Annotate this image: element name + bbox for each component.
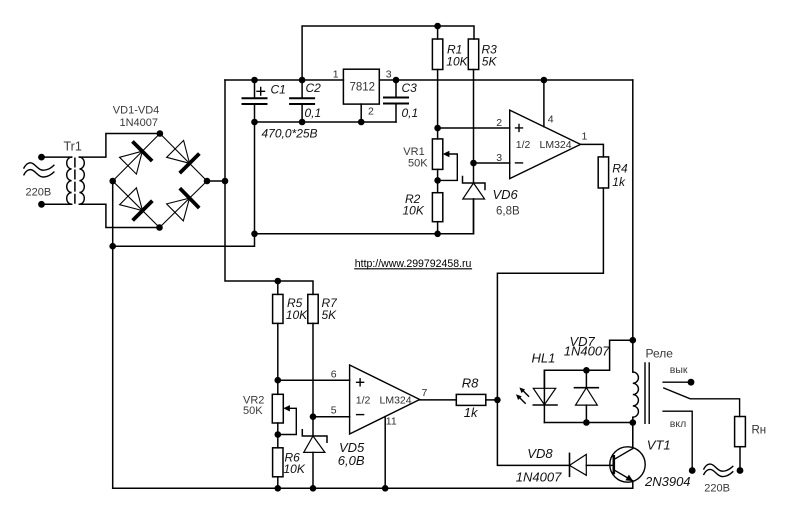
svg-text:5K: 5K (482, 54, 498, 68)
svg-text:1N4007: 1N4007 (120, 117, 159, 129)
node relay coil bottom / collector (630, 419, 637, 426)
http link underline (355, 268, 472, 270)
wire HL1/VD7 bottom to relay bottom node (544, 422, 632, 424)
resistor Rn body (735, 417, 746, 447)
wire VD7 top stub (585, 370, 587, 387)
capacitor C3 plates (384, 98, 408, 104)
diode VD2 cathode bar (181, 155, 198, 172)
capacitor C1 plates (243, 98, 267, 104)
svg-text:http://www.299792458.ru: http://www.299792458.ru (355, 258, 472, 270)
wire pin2 to op-amp (438, 127, 510, 129)
transformer Tr1 primary winding (67, 157, 72, 204)
wire R3 bottom to VD6 (473, 70, 475, 184)
diode bridge diamond frame (113, 134, 207, 228)
wire VR1 node to R2 (437, 180, 439, 192)
regulator U2 7812 box (343, 69, 379, 104)
zener VD5 cathode bar with ticks (302, 430, 327, 443)
diode VD8 cathode bar (569, 453, 571, 476)
svg-text:11: 11 (386, 416, 397, 428)
svg-text:Реле: Реле (646, 347, 674, 361)
svg-text:1N4007: 1N4007 (564, 344, 610, 359)
node VD7 bottom (583, 419, 590, 426)
svg-text:6: 6 (331, 368, 337, 380)
svg-text:470,0*25В: 470,0*25В (262, 127, 318, 141)
relay contact fixed (on) down to AC (663, 411, 692, 470)
diode VD2 (upper-right) triangle (167, 140, 190, 163)
terminal primary top (38, 154, 45, 161)
svg-text:1: 1 (582, 131, 588, 143)
VR2 wiper arm wire (278, 408, 297, 434)
svg-text:6,0В: 6,0В (338, 453, 365, 468)
svg-text:4: 4 (548, 114, 554, 126)
node bridge left (109, 178, 116, 185)
node 7812 pin2 ground (358, 119, 365, 126)
node pin11 ground (382, 485, 389, 492)
transformer Tr1 core (74, 158, 76, 203)
wire bridge - down to jog (112, 181, 114, 246)
wire capacitor ground rail (255, 121, 397, 123)
node pin3 / R3 / VD6 (470, 160, 477, 167)
wire unregulated + vertical down to R5/R7 feed (225, 80, 313, 294)
svg-text:10K: 10K (286, 308, 308, 322)
VR1 wiper arm wire (438, 154, 458, 180)
wire pin5 to op-amp (313, 416, 350, 418)
relay core bars (645, 363, 649, 423)
wire R5 top stub (277, 281, 279, 294)
svg-text:7: 7 (422, 387, 428, 399)
node ground jog left (109, 243, 116, 250)
zener VD5 triangle (304, 436, 325, 452)
svg-text:HL1: HL1 (532, 351, 556, 366)
LED HL1 cathode bar (533, 404, 557, 406)
transformer Tr1 secondary winding (79, 157, 84, 204)
op-amp U1.1 plus (516, 124, 523, 131)
node bridge bottom (156, 224, 163, 231)
VR2 wiper arrow head (283, 405, 290, 411)
LED HL1 vertical through (543, 370, 545, 422)
terminal AC left (689, 467, 696, 474)
zener VD6 triangle (463, 183, 485, 199)
svg-text:6,8В: 6,8В (496, 206, 520, 218)
op-amp U1.1 triangle (510, 110, 581, 179)
node top wire / R1 (434, 23, 441, 30)
node R8 / R4 / VD8 (494, 397, 501, 404)
svg-text:1/2: 1/2 (516, 139, 531, 151)
diode VD3 cathode bar (134, 202, 151, 219)
transistor VT1 circle (610, 447, 645, 482)
svg-text:С2: С2 (306, 81, 322, 95)
node C2 bottom (299, 119, 306, 126)
node pin2 / R1 / VR1 (434, 125, 441, 132)
VT1 emitter arrow head (625, 475, 633, 482)
diode VD3 (lower-left) triangle (120, 188, 143, 211)
op-amp U1.2 minus (357, 414, 364, 416)
svg-text:LM324: LM324 (380, 394, 412, 406)
wire +12V rail 7812 pin3 to relay corner (379, 79, 633, 81)
node VR2 wiper (275, 431, 282, 438)
svg-text:С1: С1 (271, 83, 286, 97)
svg-text:С3: С3 (402, 81, 418, 95)
wire R1 top stub (437, 26, 439, 39)
svg-text:вык: вык (670, 364, 688, 376)
node R5 top feed (275, 278, 282, 285)
svg-text:3: 3 (496, 152, 502, 164)
svg-text:10K: 10K (403, 204, 425, 218)
wire pin3 to op-amp (474, 162, 510, 164)
capacitor C3 stubs (395, 80, 397, 122)
resistor R5 body (273, 294, 283, 323)
AC source 220V left squiggles (24, 163, 54, 170)
svg-text:Tr1: Tr1 (64, 140, 82, 154)
svg-text:2: 2 (368, 106, 374, 118)
node relay coil top (630, 337, 637, 344)
node pin5 / R7 / VD5 (310, 413, 317, 420)
svg-text:10K: 10K (284, 462, 306, 476)
node ground rail left (251, 231, 258, 238)
wire primary bottom (42, 203, 72, 205)
wire upper ground rail to VD6 anode (255, 199, 474, 234)
svg-text:VD1-VD4: VD1-VD4 (113, 105, 159, 117)
node pin6 / R5 / VR2 (275, 377, 282, 384)
wire bridge + output to vertical (207, 180, 225, 182)
svg-text:10K: 10K (446, 54, 468, 68)
transistor VT1 collector (614, 423, 633, 460)
node op-amp pin4 on +12V rail (541, 77, 548, 84)
wire VR2 bottom to R6 (277, 423, 279, 448)
svg-text:1k: 1k (464, 405, 479, 420)
capacitor C1 stubs (254, 80, 256, 122)
node VR1 wiper (434, 177, 441, 184)
svg-text:VT1: VT1 (647, 438, 671, 453)
wire VD7 anode stub (585, 405, 587, 422)
wire R7 bottom to pin5 node (312, 323, 314, 416)
resistor R4 body (598, 157, 608, 188)
svg-text:5K: 5K (322, 308, 338, 322)
capacitor C2 stubs (301, 80, 303, 122)
wire R2 bottom to ground rail (437, 222, 439, 234)
svg-text:VR1: VR1 (403, 146, 424, 158)
resistor R1 body (432, 39, 442, 70)
node C1 bottom (251, 119, 258, 126)
wire VR1 bottom (437, 169, 439, 180)
wire secondary bottom to bridge bottom (79, 204, 159, 227)
svg-text:3: 3 (386, 69, 392, 81)
svg-text:1k: 1k (612, 175, 626, 189)
svg-text:220В: 220В (26, 187, 52, 199)
diode VD1 cathode bar (134, 143, 151, 160)
LED HL1 emission arrows (519, 390, 528, 403)
wire op-amp pin4 to +12V rail (543, 80, 545, 127)
svg-text:2N3904: 2N3904 (644, 474, 691, 489)
C1 plus sign (257, 88, 265, 96)
diode VD8 triangle (570, 454, 587, 475)
node bridge + vertical (222, 178, 229, 185)
svg-text:VD8: VD8 (527, 446, 553, 461)
svg-text:вкл: вкл (670, 418, 686, 430)
VR1 wiper arrow head (443, 151, 450, 157)
wire op-amp pin1 output to R4 (581, 144, 604, 157)
svg-text:1N4007: 1N4007 (516, 470, 562, 485)
relay contact arm to Rn (664, 388, 740, 417)
diode VD7 cathode bar (575, 387, 599, 389)
diode VD7 triangle (576, 388, 598, 405)
relay contact fixed (off) (663, 381, 691, 383)
resistor R3 body (468, 39, 478, 70)
wire top +12V branch to R1/R3 (302, 26, 474, 80)
node C1 top (251, 77, 258, 84)
svg-text:0,1: 0,1 (305, 106, 322, 120)
transistor VT1 base bar (612, 456, 615, 473)
wire pin6 to op-amp (278, 379, 350, 381)
wire R5 bottom through pin6 node to VR2 (277, 323, 279, 394)
svg-text:R8: R8 (462, 375, 479, 390)
wire R8 to node (486, 399, 498, 401)
svg-text:1: 1 (333, 69, 339, 81)
wire +12V rail from unregulated corner to 7812 pin1 (225, 79, 343, 81)
wire relay node to VD7/HL1 top (544, 340, 632, 388)
svg-text:0,1: 0,1 (402, 106, 419, 120)
wire relay coil bottom to collector node (632, 417, 634, 448)
wire node to VR1 top (437, 128, 439, 139)
node bridge right (204, 178, 211, 185)
resistor R6 body (273, 448, 283, 477)
diode VD1 (upper-left) triangle (120, 151, 143, 174)
svg-text:Rн: Rн (752, 425, 767, 437)
node R2 bottom ground (434, 231, 441, 238)
diode VD4 cathode bar (181, 190, 198, 207)
svg-text:7812: 7812 (350, 82, 376, 94)
svg-text:VD6: VD6 (493, 187, 519, 202)
AC source 220V right squiggles (704, 464, 733, 471)
op-amp U1.2 plus (357, 379, 364, 386)
svg-text:1/2: 1/2 (356, 394, 371, 406)
wire C1 ground vertical (254, 122, 256, 234)
wire Rn bottom (739, 447, 741, 471)
wire R1 bottom to node pin2 (437, 70, 439, 129)
wire op-amp pin7 output to R8 (420, 399, 457, 401)
wire R6 bottom to ground (277, 477, 279, 489)
resistor R7 body (308, 294, 318, 323)
zener VD6 cathode bar with ticks (463, 177, 486, 190)
transistor VT1 emitter (614, 470, 633, 481)
terminal contact off (688, 379, 695, 386)
wire relay + from rail down to coil (632, 80, 634, 372)
resistor R8 body (456, 394, 486, 405)
wire VD8 to VT1 base (586, 464, 613, 466)
node C2 top (299, 77, 306, 84)
wire secondary top to bridge top (79, 134, 159, 158)
zener VD5 top stub (312, 417, 314, 436)
resistor R2 body (432, 193, 442, 222)
wire VD6 anode (473, 199, 475, 234)
svg-text:220В: 220В (704, 483, 730, 495)
wire op-amp pin11 to ground (384, 417, 386, 489)
wire bridge - down to bottom ground rail (112, 246, 114, 488)
op-amp U1.1 minus (516, 162, 523, 164)
wire ground jog to upper ground rail (113, 234, 255, 246)
diode VD4 (lower-right) triangle (167, 198, 190, 221)
node C3 / 7812 pin3 (393, 77, 400, 84)
node R6 bottom ground (275, 485, 282, 492)
svg-text:LM324: LM324 (540, 139, 572, 151)
svg-text:50K: 50K (243, 405, 263, 417)
svg-text:R4: R4 (612, 161, 628, 175)
relay coil arcs (633, 372, 639, 417)
wire 7812 pin2 stub (360, 104, 362, 122)
wire bottom ground rail (113, 481, 633, 488)
capacitor C2 plates (290, 98, 314, 104)
wire R4 bottom to R8 node (497, 188, 603, 400)
potentiometer VR2 body (272, 394, 283, 423)
node bridge top (157, 130, 164, 137)
terminal primary bottom (38, 201, 45, 208)
node VD7 top (583, 367, 590, 374)
wire VD5 anode to ground (312, 452, 314, 488)
svg-text:2: 2 (496, 117, 502, 129)
svg-text:5: 5 (331, 404, 337, 416)
op-amp U1.2 triangle (350, 365, 420, 434)
node VD5 anode ground (310, 485, 317, 492)
terminal AC right / Rn (737, 467, 744, 474)
LED HL1 triangle (533, 388, 555, 404)
wire primary top (42, 156, 72, 158)
wire R8 node down to VD8 (497, 400, 569, 466)
potentiometer VR1 body (432, 139, 442, 170)
svg-text:50K: 50K (408, 158, 428, 170)
